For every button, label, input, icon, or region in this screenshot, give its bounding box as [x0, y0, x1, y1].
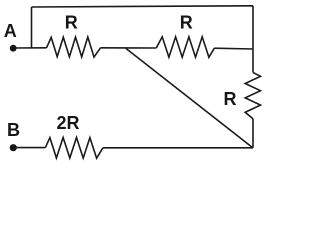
svg-text:B: B	[7, 120, 20, 140]
resistor 2R	[45, 138, 103, 159]
wire	[101, 47, 157, 49]
wire	[31, 7, 33, 48]
node A	[10, 45, 17, 52]
svg-text:R: R	[180, 13, 193, 33]
resistor R2	[156, 37, 214, 58]
node B	[10, 144, 17, 151]
wire	[214, 47, 253, 50]
wire	[13, 47, 47, 49]
wire	[252, 119, 254, 148]
resistor R1	[47, 37, 101, 57]
svg-text:R: R	[224, 89, 237, 109]
wire	[13, 147, 45, 149]
svg-text:R: R	[65, 13, 78, 33]
svg-text:2R: 2R	[57, 113, 80, 133]
svg-text:A: A	[4, 21, 17, 41]
wire	[103, 147, 253, 149]
wire	[32, 6, 254, 7]
wire	[126, 49, 253, 148]
resistor R3	[245, 73, 260, 119]
wire	[252, 6, 254, 73]
